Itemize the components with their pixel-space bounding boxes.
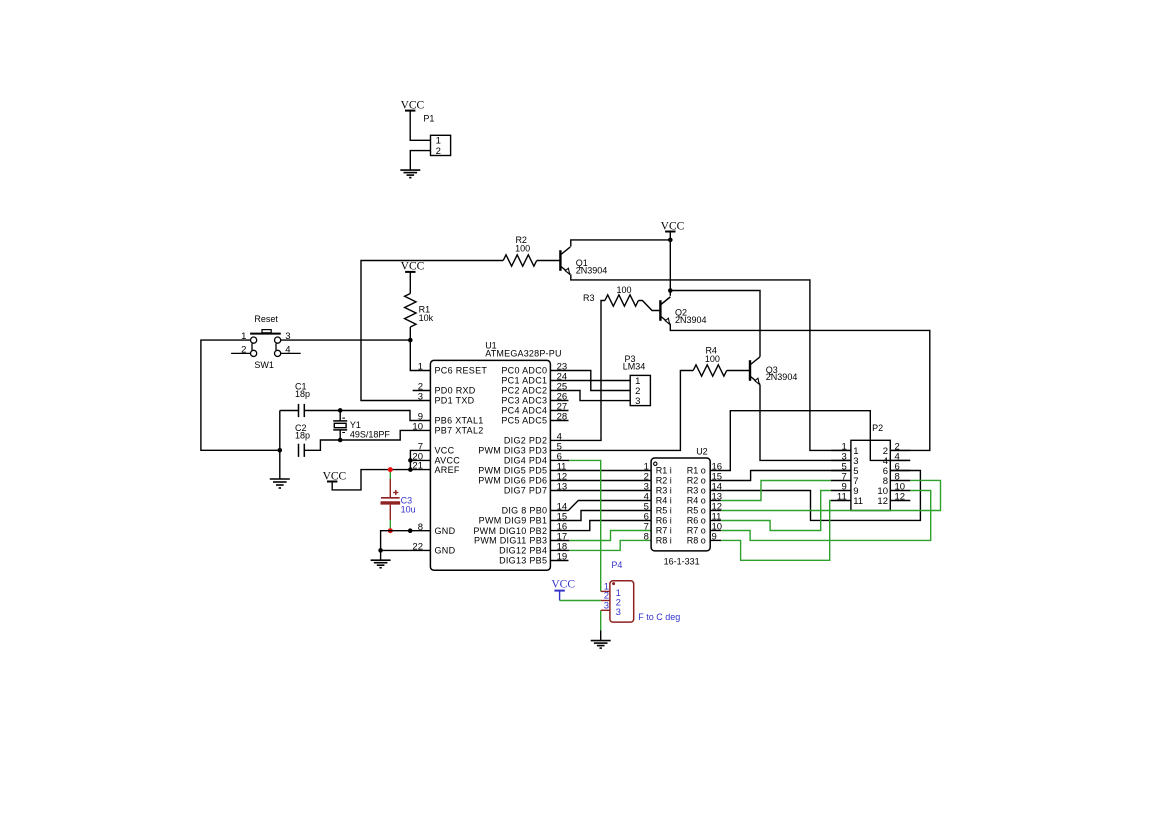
svg-text:DIG7 PD7: DIG7 PD7 <box>504 486 547 496</box>
svg-text:PD0 RXD: PD0 RXD <box>435 386 476 396</box>
svg-text:PB7 XTAL2: PB7 XTAL2 <box>435 426 484 436</box>
power symbol VCC (P1 net) <box>401 99 425 111</box>
svg-text:DIG13 PB5: DIG13 PB5 <box>499 556 547 566</box>
wire U1 pin 22 GND <box>381 549 431 551</box>
IC U1 ATMEGA328P-PU <box>430 360 550 570</box>
svg-text:49S/18PF: 49S/18PF <box>350 429 391 439</box>
svg-text:DIG2 PD2: DIG2 PD2 <box>504 436 547 446</box>
svg-text:GND: GND <box>435 526 456 536</box>
wire U2 pin 11 (R6 o) to P2 pin 9 (green) <box>721 491 831 531</box>
junction VCC/Q1 collector <box>668 238 673 243</box>
junction Y1 top / C1 wire <box>338 408 343 413</box>
svg-text:3: 3 <box>635 396 640 407</box>
wire U1 pin 12 to U2 pin 2 <box>550 480 651 482</box>
wire stub AVCC pin 20 <box>410 459 430 461</box>
capacitor C3 10u (electrolytic) <box>381 470 401 529</box>
stub P2 pin 6 <box>890 470 910 472</box>
connector P1 <box>431 135 451 155</box>
stub U1 pin 17 <box>550 540 569 542</box>
svg-text:PC1 ADC1: PC1 ADC1 <box>501 376 547 386</box>
resistor R4 <box>693 365 727 376</box>
red junction C3 top <box>388 467 393 472</box>
svg-text:3: 3 <box>418 392 423 403</box>
stub U1 pin 18 <box>550 549 569 551</box>
wire U2 pin 12 (R5 o) to P2 pin 8 (green) <box>721 480 940 510</box>
wire Q1 collector to VCC rail <box>571 240 671 247</box>
svg-text:DIG 8 PB0: DIG 8 PB0 <box>502 506 548 516</box>
svg-text:PWM DIG5 PD5: PWM DIG5 PD5 <box>478 466 547 476</box>
stub P2 pin 12 <box>890 500 910 502</box>
svg-text:2N3904: 2N3904 <box>675 315 707 325</box>
svg-text:R2 i: R2 i <box>656 476 672 486</box>
svg-text:10k: 10k <box>419 313 434 323</box>
svg-text:R3: R3 <box>583 293 595 303</box>
svg-text:11: 11 <box>837 492 847 503</box>
svg-text:U2: U2 <box>696 447 708 457</box>
svg-text:R6 i: R6 i <box>656 516 672 526</box>
stub P2 pin 5 <box>831 470 851 472</box>
svg-text:R3 i: R3 i <box>656 486 672 496</box>
junction ground rail / SW1 wire <box>278 448 283 453</box>
svg-text:18p: 18p <box>295 389 310 399</box>
svg-text:12: 12 <box>877 496 888 507</box>
junction AVCC <box>408 458 413 463</box>
power symbol VCC (blue, P4 pin 2) <box>551 579 575 601</box>
stub P2 pin 10 <box>890 490 910 492</box>
stub U1 pin 26 <box>550 400 568 402</box>
wire U1 pin 17 to U2 pin 7 (green) <box>569 531 651 541</box>
svg-text:VCC: VCC <box>401 261 425 273</box>
svg-text:10: 10 <box>412 422 423 433</box>
wire U1 pin 15 to U2 pin 5 <box>550 511 651 521</box>
svg-text:11: 11 <box>853 496 863 507</box>
svg-text:1: 1 <box>418 362 423 373</box>
wire U2 pin 10 (R7 o) to P2 pin 10 (green) <box>721 491 931 541</box>
wire R2 to Q1 base <box>537 260 560 262</box>
stub U2 pin 12 <box>710 510 721 512</box>
svg-text:PWM DIG6 PD6: PWM DIG6 PD6 <box>478 476 547 486</box>
svg-text:GND: GND <box>435 546 456 556</box>
ground (C1/C2) <box>270 479 290 488</box>
svg-text:R5 o: R5 o <box>687 506 706 516</box>
wire C2 to crystal bottom rail <box>304 430 430 450</box>
svg-text:R3 o: R3 o <box>687 486 706 496</box>
wire VCC to P4 pin 2 (green) <box>560 600 601 602</box>
svg-text:3: 3 <box>604 601 609 612</box>
wire U1 pin 4 (DIG2 PD2) to R3 <box>550 301 605 441</box>
wire SW1 pin 1 to ground rail <box>201 340 280 450</box>
svg-text:PB6 XTAL1: PB6 XTAL1 <box>435 416 484 426</box>
svg-text:R1 i: R1 i <box>656 466 672 476</box>
wire U1 pin 5 (PWM DIG3 PD3) to R4 <box>550 371 693 451</box>
svg-text:ATMEGA328P-PU: ATMEGA328P-PU <box>485 348 561 358</box>
wire SW1 pin 3 to R1 / U1 PC6 node <box>281 339 410 341</box>
junction Y1 bottom / C2 wire <box>338 438 343 443</box>
wire U1 pin 3 (PD1 TXD) to R2 <box>361 261 503 401</box>
wire VCC to R1 <box>409 272 411 294</box>
connector P3 (LM34) <box>630 375 650 405</box>
stub U1 pin 2 <box>413 390 431 392</box>
svg-text:R8 i: R8 i <box>656 536 672 546</box>
svg-text:R4 o: R4 o <box>687 496 706 506</box>
ground (U1 GND pins) <box>371 560 391 568</box>
svg-text:2N3904: 2N3904 <box>766 372 798 382</box>
wire P4 pin 3 to ground (green) <box>600 610 602 630</box>
svg-text:8: 8 <box>418 522 423 533</box>
svg-text:22: 22 <box>412 542 423 553</box>
svg-text:PWM DIG11 PB3: PWM DIG11 PB3 <box>474 536 547 546</box>
svg-text:2N3904: 2N3904 <box>576 265 608 275</box>
svg-text:10u: 10u <box>401 504 416 514</box>
wire U2 pin 16 (R1 o) to P2 pin 4 <box>710 411 910 471</box>
svg-text:P1: P1 <box>423 114 434 124</box>
stub P2 pin 11 <box>831 500 851 502</box>
stub U2 pin 13 <box>710 500 721 502</box>
ground (below P1) <box>400 170 420 178</box>
junction Q2/Q3 collector node <box>668 288 673 293</box>
svg-text:PWM DIG9 PB1: PWM DIG9 PB1 <box>479 516 548 526</box>
stub P2 pin 1 <box>831 449 851 451</box>
wire Q2 collector to VCC node <box>661 297 670 305</box>
power symbol VCC (transistor rail) <box>661 220 685 232</box>
wire ground rail vertical (C1/C2 left) <box>279 411 281 480</box>
svg-text:R1 o: R1 o <box>687 466 706 476</box>
stub P2 pin 7 <box>831 480 851 482</box>
resistor R1 <box>405 294 416 328</box>
crystal Y1 49S/18PF <box>333 410 347 440</box>
stub U2 pin 9 <box>710 539 721 541</box>
svg-text:18p: 18p <box>295 431 310 441</box>
junction SW1/R1/PC6 <box>408 338 413 343</box>
svg-text:P2: P2 <box>872 423 883 433</box>
svg-text:2: 2 <box>241 344 246 355</box>
connector P2 <box>851 440 890 510</box>
svg-text:PC0 ADC0: PC0 ADC0 <box>501 366 547 376</box>
svg-text:21: 21 <box>412 461 423 472</box>
svg-text:R8 o: R8 o <box>687 536 706 546</box>
svg-text:PWM DIG10 PB2: PWM DIG10 PB2 <box>473 526 547 536</box>
wire U1 pin 25 to P3 pin 3 <box>550 391 630 401</box>
svg-text:R5 i: R5 i <box>656 506 672 516</box>
stub U1 pin 6 <box>550 459 569 461</box>
svg-text:16-1-331: 16-1-331 <box>664 556 700 566</box>
svg-text:F to C deg: F to C deg <box>638 612 680 622</box>
svg-text:VCC: VCC <box>551 579 575 591</box>
wire U1 pin 16 to U2 pin 6 <box>550 521 651 531</box>
wire P1 pin 2 to ground <box>410 151 430 171</box>
stub P2 pin 3 <box>831 459 851 461</box>
svg-text:4: 4 <box>285 344 290 355</box>
svg-text:DIG12 PB4: DIG12 PB4 <box>499 546 547 556</box>
svg-text:100: 100 <box>616 285 631 295</box>
stub U1 pin 28 <box>550 420 568 422</box>
svg-text:8: 8 <box>644 532 649 543</box>
svg-text:100: 100 <box>705 354 720 364</box>
power symbol VCC (AREF net) <box>323 470 347 482</box>
wire collector node to Q3 collector <box>670 291 760 357</box>
wire R3 to Q2 base <box>638 301 659 311</box>
junction GND pin 8 wire <box>408 528 413 533</box>
svg-text:Reset: Reset <box>254 314 278 324</box>
wire ground stem (P4) <box>600 630 602 640</box>
connector P4 (F to C deg) <box>601 581 634 622</box>
svg-text:AREF: AREF <box>435 465 460 475</box>
wire U1 pin 23 to P3 pin 2 <box>550 371 630 391</box>
svg-text:PWM DIG3 PD3: PWM DIG3 PD3 <box>478 446 547 456</box>
svg-text:PC3 ADC3: PC3 ADC3 <box>501 396 547 406</box>
resistor R2 <box>503 255 537 266</box>
stub P2 pin 4 <box>890 459 910 461</box>
wire U1 pin 6 (DIG4 PD4) to P4 pin 1 (green) <box>569 460 600 591</box>
wire Q1 emitter to P2 pin 1 <box>571 274 851 450</box>
red junction C3 bottom <box>388 528 393 533</box>
svg-text:VCC: VCC <box>435 446 455 456</box>
wire U2 pin 14 (R3 o) to P2 pin 6 <box>710 471 920 521</box>
svg-text:DIG4 PD4: DIG4 PD4 <box>504 456 547 466</box>
wire AREF net to VCC pin 7 <box>410 450 430 469</box>
stub P2 pin 8 <box>890 480 910 482</box>
svg-text:PC4 ADC4: PC4 ADC4 <box>501 406 547 416</box>
stub U2 pin 10 <box>710 530 721 532</box>
junction AREF <box>408 467 413 472</box>
wire VCC to P1 pin 1 <box>410 111 430 141</box>
capacitor C2 18p <box>299 444 305 457</box>
wire VCC down to collector node <box>669 232 671 296</box>
stub P2 pin 2 <box>890 449 910 451</box>
svg-text:R6 o: R6 o <box>687 516 706 526</box>
transistor Q2 2N3904 <box>660 297 670 324</box>
svg-text:3: 3 <box>616 607 621 618</box>
transistor Q1 2N3904 <box>560 247 570 274</box>
stub U2 pin 11 <box>710 520 721 522</box>
svg-text:PC5 ADC5: PC5 ADC5 <box>501 416 547 426</box>
pushbutton SW1 (Reset) <box>231 330 301 357</box>
wire U1 pin 14 to U2 pin 4 <box>550 501 651 511</box>
svg-text:R7 i: R7 i <box>656 526 672 536</box>
svg-text:PD1 TXD: PD1 TXD <box>435 396 475 406</box>
wire C1 to U1 pin 9 (PB6 XTAL1) <box>304 411 430 421</box>
wire U2 pin 13 (R4 o) to P2 pin 7 (green) <box>721 481 831 501</box>
wire U1 pin 13 to U2 pin 3 <box>550 490 651 492</box>
wire R4 to Q3 base <box>727 370 749 372</box>
svg-text:R7 o: R7 o <box>687 526 706 536</box>
wire U2 pin 15 (R2 o) to P2 pin 5 <box>710 471 851 481</box>
svg-text:PC2 ADC2: PC2 ADC2 <box>501 386 547 396</box>
wire U1 pin 11 to U2 pin 1 <box>550 470 651 472</box>
svg-text:R4 i: R4 i <box>656 496 672 506</box>
stub U1 pin 19 <box>550 560 568 562</box>
svg-text:12: 12 <box>895 492 906 503</box>
wire U1 pin 18 to U2 pin 8 (green) <box>569 540 651 550</box>
wire VCC to AREF net <box>332 470 430 490</box>
wire U1 pin 24 to P3 pin 1 <box>550 380 630 382</box>
stub U1 pin 27 <box>550 410 568 412</box>
svg-text:LM34: LM34 <box>623 361 646 371</box>
svg-text:P4: P4 <box>611 560 622 570</box>
IC U2 16-1-331 (resistor network) <box>651 458 710 551</box>
power symbol VCC (above R1) <box>401 261 425 273</box>
wire U2 pin 9 (R8 o) to P2 pin 11 (green) <box>721 501 831 561</box>
wire Q3 emitter to P2 pin 3 <box>760 384 851 460</box>
wire U1 pin 8 GND to ground <box>381 531 431 560</box>
transistor Q3 2N3904 <box>750 357 760 384</box>
wire R1 to U1 pin 1 (PC6 RESET) <box>410 327 430 371</box>
wire ground rail to C1 <box>280 410 299 412</box>
capacitor C1 18p <box>299 404 305 417</box>
svg-text:R2 o: R2 o <box>687 476 706 486</box>
svg-text:PC6 RESET: PC6 RESET <box>435 366 488 376</box>
svg-text:SW1: SW1 <box>254 360 274 370</box>
wire Q2 emitter to P2 pin 2 <box>670 324 930 450</box>
junction GND rail <box>378 548 383 553</box>
svg-text:2: 2 <box>436 146 441 157</box>
svg-text:100: 100 <box>515 244 530 254</box>
stub P2 pin 9 <box>831 490 851 492</box>
ground (P4) <box>591 641 611 649</box>
resistor R3 <box>605 295 639 306</box>
